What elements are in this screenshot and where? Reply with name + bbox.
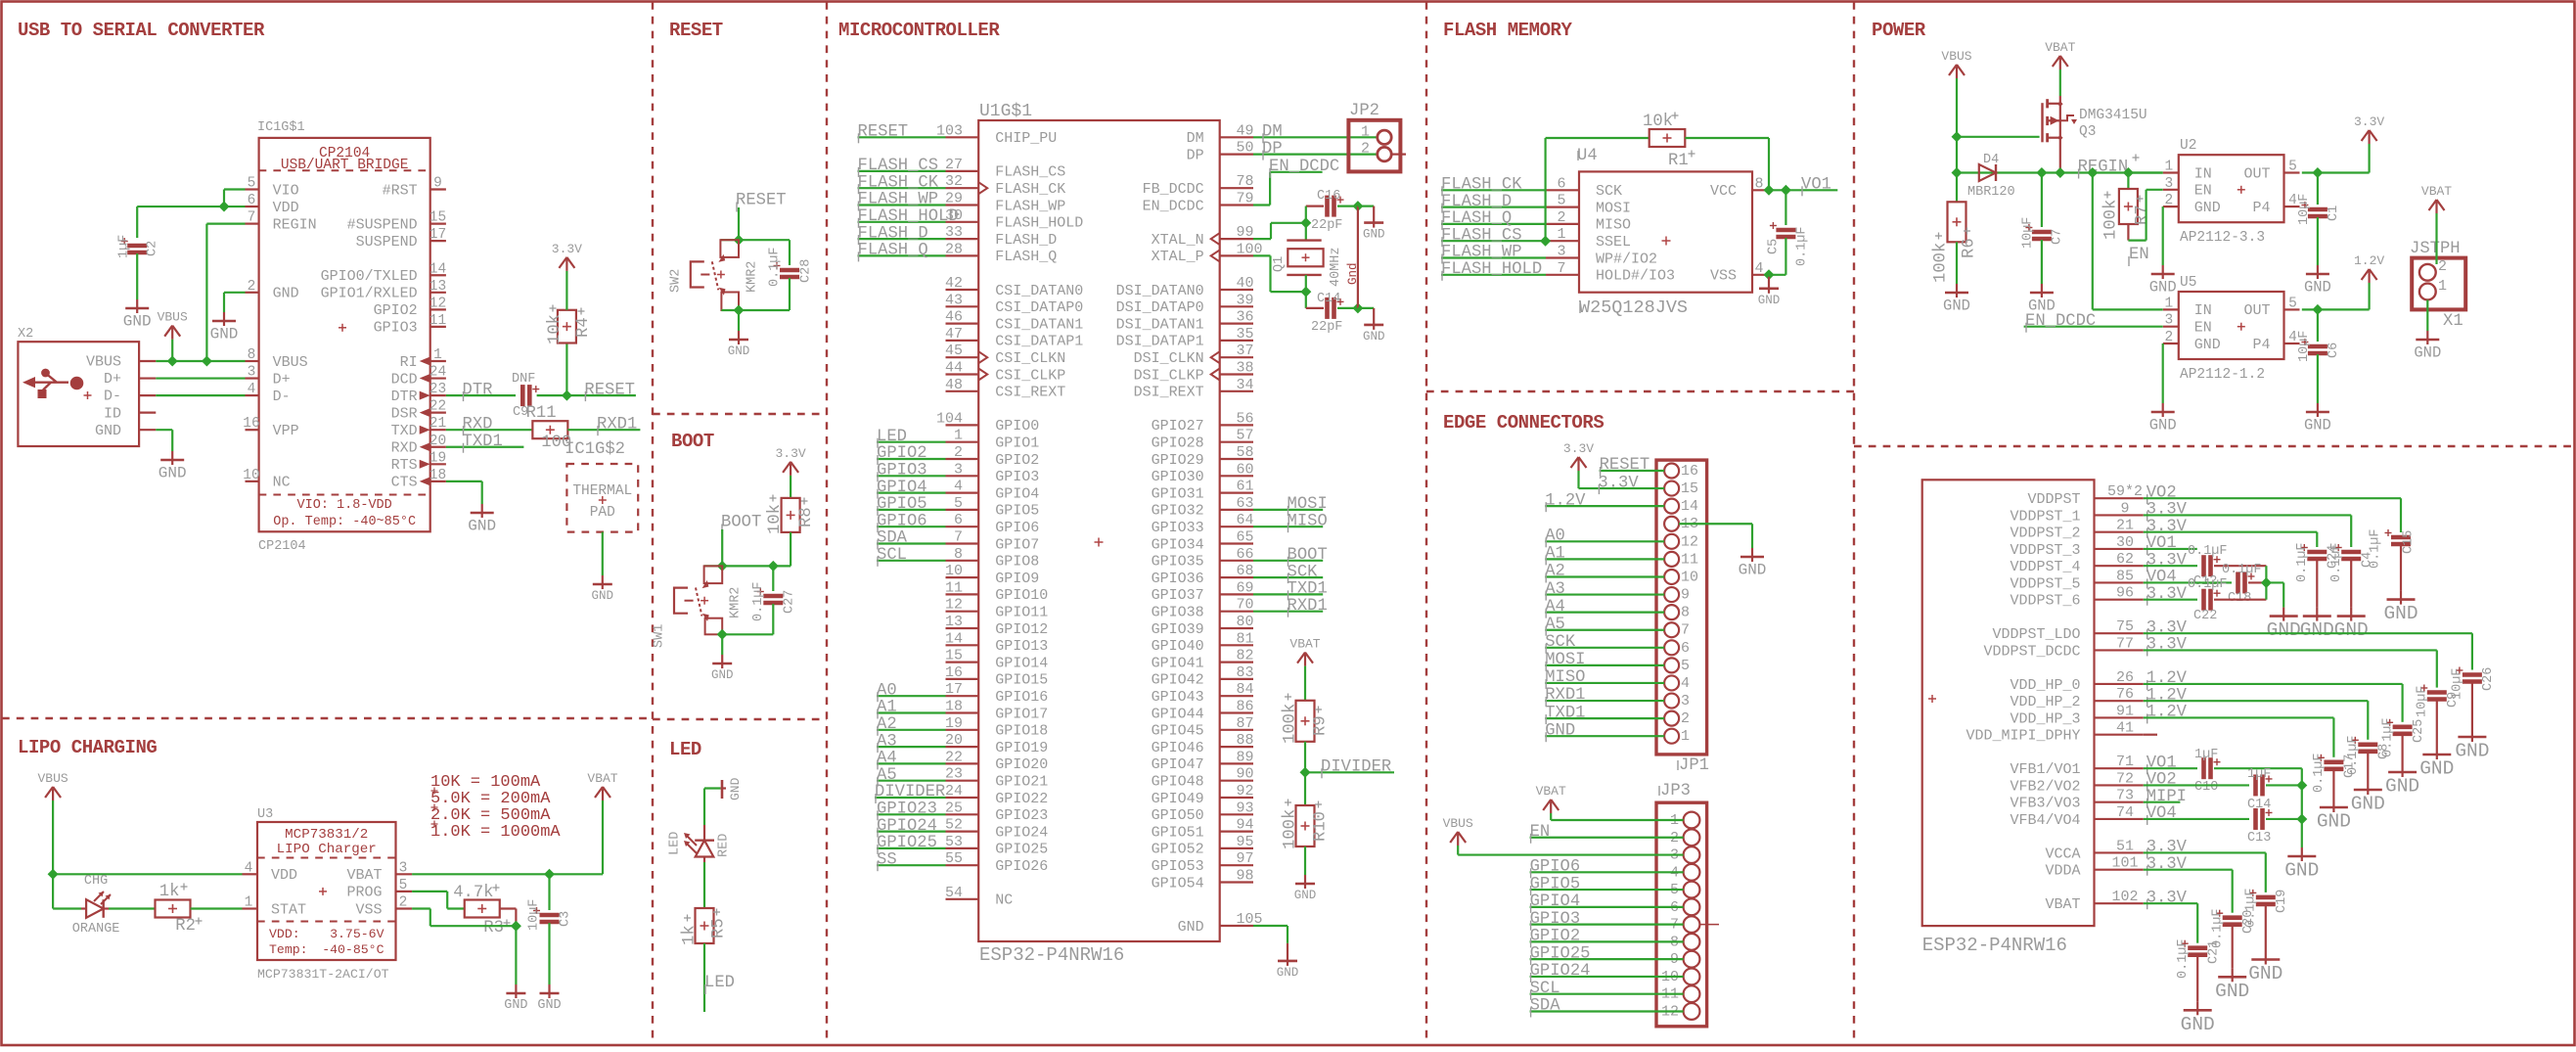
svg-text:KMR2: KMR2	[745, 261, 759, 293]
ground R6	[1956, 284, 1958, 293]
ground C1	[2317, 265, 2319, 274]
wire gate link	[1957, 136, 2040, 138]
junction rail vbus	[1952, 167, 1963, 178]
svg-text:GND: GND	[158, 465, 187, 482]
wire DIVIDER label	[1305, 771, 1394, 773]
wire VO4 vfb4	[2144, 818, 2249, 820]
svg-text:101: 101	[2111, 855, 2138, 872]
ground boot	[721, 655, 723, 663]
svg-text:69: 69	[1237, 579, 1254, 596]
svg-text:GPIO29: GPIO29	[1152, 452, 1204, 469]
svg-text:100k: 100k	[1932, 243, 1951, 283]
svg-text:GPIO32: GPIO32	[1152, 503, 1204, 520]
svg-text:GPIO2: GPIO2	[374, 302, 418, 319]
svg-text:23: 23	[429, 382, 446, 397]
svg-text:GPIO37: GPIO37	[1152, 587, 1204, 604]
svg-text:GPIO0/TXLED: GPIO0/TXLED	[321, 268, 418, 285]
svg-text:LED: LED	[704, 974, 735, 992]
wire R3 to junction	[499, 907, 516, 909]
wire net GPIO24 jp3	[1530, 976, 1684, 978]
svg-text:GND: GND	[273, 286, 299, 302]
svg-text:VDDPST_6: VDDPST_6	[2010, 593, 2080, 610]
svg-text:Q1: Q1	[1272, 256, 1287, 272]
svg-text:GND: GND	[728, 777, 743, 800]
svg-text:50: 50	[1237, 140, 1254, 157]
junction C5 top	[1781, 185, 1791, 196]
svg-text:14: 14	[1681, 498, 1698, 515]
svg-text:GPIO39: GPIO39	[1152, 621, 1204, 638]
svg-text:25: 25	[945, 800, 963, 816]
svg-text:86: 86	[1237, 699, 1254, 715]
svg-text:GPIO4: GPIO4	[1530, 892, 1581, 911]
wire net GPIO6 jp3	[1530, 871, 1684, 873]
svg-text:7: 7	[1681, 622, 1690, 639]
resistor R5 1k	[696, 908, 714, 943]
svg-text:GPIO3: GPIO3	[995, 469, 1039, 485]
svg-text:NC: NC	[273, 475, 291, 491]
svg-text:22: 22	[945, 749, 963, 765]
svg-text:96: 96	[2116, 585, 2134, 602]
wire EN to U2 pin3	[2128, 240, 2146, 242]
svg-text:C10: C10	[2194, 780, 2218, 795]
capacitor C24 0.1uF	[2307, 550, 2327, 555]
svg-text:15: 15	[945, 648, 963, 664]
svg-text:EN_DCDC: EN_DCDC	[1269, 158, 1339, 176]
svg-text:SUSPEND: SUSPEND	[356, 234, 418, 251]
ic U1 ESP32-P4 box	[978, 120, 1219, 941]
wire MIPI vfb3	[2144, 801, 2181, 803]
JP3 circles	[1684, 812, 1700, 829]
svg-text:GPIO3: GPIO3	[877, 462, 927, 480]
junction boot right	[768, 561, 779, 572]
svg-text:102: 102	[2111, 889, 2138, 905]
svg-text:REGIN: REGIN	[2078, 159, 2129, 177]
svg-text:65: 65	[1237, 529, 1254, 546]
wire net GPIO25 jp3	[1530, 958, 1684, 960]
capacitor C18 0.1uF	[2236, 572, 2240, 593]
ground jp1 pin13	[1751, 548, 1753, 557]
svg-text:59*2: 59*2	[2107, 483, 2143, 500]
svg-text:FLASH_WP: FLASH_WP	[1441, 244, 1522, 262]
svg-text:17: 17	[429, 227, 446, 243]
svg-text:CSI_REXT: CSI_REXT	[995, 385, 1065, 401]
svg-text:ESP32-P4NRW16: ESP32-P4NRW16	[979, 944, 1124, 966]
svg-text:VDD: VDD	[273, 200, 299, 216]
svg-text:1: 1	[2438, 278, 2447, 295]
junction VSS u4	[1764, 269, 1775, 280]
wire DM net	[1253, 136, 1378, 138]
wire vddpst cap bus	[2265, 566, 2267, 600]
svg-text:1: 1	[245, 895, 253, 911]
svg-text:VO1: VO1	[2147, 534, 2177, 553]
svg-text:C19: C19	[2275, 890, 2289, 913]
svg-text:AP2112-1.2: AP2112-1.2	[2180, 367, 2265, 383]
wire R6 gnd	[1956, 242, 1958, 284]
svg-text:39: 39	[1237, 292, 1254, 308]
svg-text:C2: C2	[146, 241, 160, 256]
junction VBUS at power arrow	[167, 356, 178, 367]
svg-text:Op. Temp: -40~85°C: Op. Temp: -40~85°C	[273, 515, 416, 529]
ic IC1 CP2104 box	[259, 138, 430, 531]
svg-text:11: 11	[429, 313, 446, 329]
svg-text:FLASH_WP: FLASH_WP	[858, 191, 939, 209]
wire IC1 GND pin2	[224, 292, 246, 294]
svg-text:64: 64	[1237, 512, 1254, 528]
svg-text:2: 2	[2164, 330, 2173, 345]
wire U3 VBAT net	[412, 873, 601, 875]
svg-text:GND: GND	[1294, 889, 1317, 902]
wire LED top	[704, 787, 720, 789]
svg-text:5: 5	[954, 495, 963, 512]
svg-text:55: 55	[945, 850, 963, 867]
junction XTAL_N	[1300, 217, 1311, 228]
svg-text:GPIO9: GPIO9	[995, 571, 1039, 587]
svg-text:A1: A1	[877, 699, 897, 717]
svg-text:DSI_REXT: DSI_REXT	[1134, 385, 1204, 401]
svg-text:72: 72	[2116, 770, 2134, 787]
wire U1 GND net	[1253, 925, 1288, 927]
ground C24	[2316, 608, 2318, 617]
wire net FLASH_WP flash	[1441, 256, 1546, 258]
svg-text:SDA: SDA	[1530, 997, 1561, 1016]
wire net MISO u1-right	[1253, 526, 1323, 527]
svg-text:A1: A1	[1545, 545, 1565, 564]
svg-text:1µF: 1µF	[117, 235, 132, 258]
wire net GPIO2 jp3	[1530, 940, 1684, 942]
svg-text:USB/UART BRIDGE: USB/UART BRIDGE	[281, 158, 409, 173]
resistor R2 1k	[156, 900, 191, 918]
svg-text:34: 34	[1237, 377, 1254, 393]
svg-text:60: 60	[1237, 461, 1254, 478]
svg-text:XTAL_P: XTAL_P	[1152, 249, 1204, 265]
capacitor C28 0.1uF	[789, 240, 791, 265]
svg-text:85: 85	[2116, 568, 2134, 584]
svg-text:GPIO6: GPIO6	[1530, 858, 1581, 877]
svg-text:GND: GND	[210, 326, 239, 343]
svg-text:8: 8	[1754, 175, 1763, 192]
ground C21	[2196, 1001, 2198, 1010]
wire RXD net	[446, 429, 533, 431]
svg-text:GPIO12: GPIO12	[995, 621, 1048, 638]
resistor R6 100k	[1956, 173, 1958, 203]
junction VSS R3	[511, 921, 521, 932]
svg-text:68: 68	[1237, 563, 1254, 579]
svg-text:GPIO35: GPIO35	[1152, 554, 1204, 571]
IC1 right pin stubs	[430, 188, 446, 190]
svg-text:A0: A0	[1545, 527, 1565, 546]
svg-text:FLASH_CS: FLASH_CS	[1441, 226, 1522, 245]
junction rail r7	[2123, 167, 2134, 178]
svg-text:R7: R7	[2134, 205, 2152, 225]
svg-text:21: 21	[2116, 518, 2134, 534]
svg-text:3: 3	[248, 365, 256, 381]
svg-text:VSS: VSS	[355, 901, 382, 918]
svg-text:4: 4	[2288, 193, 2297, 208]
svg-text:GND: GND	[2334, 619, 2369, 641]
svg-text:D+: D+	[104, 371, 121, 388]
diode D4 MBR120	[1979, 164, 1996, 181]
svg-text:C20: C20	[2241, 910, 2256, 934]
usb connector X2	[18, 342, 139, 446]
svg-text:VDD_HP_2: VDD_HP_2	[2010, 694, 2080, 710]
svg-text:38: 38	[1237, 360, 1254, 377]
wire 1.2V row12	[2144, 700, 2369, 702]
svg-text:MOSI: MOSI	[1596, 200, 1631, 216]
svg-text:RTS: RTS	[391, 457, 418, 474]
svg-text:GND: GND	[1943, 297, 1970, 315]
svg-text:18: 18	[429, 468, 446, 483]
ground C2	[136, 299, 138, 308]
wire net A2 u1-left	[877, 729, 946, 731]
svg-text:MISO: MISO	[1288, 512, 1328, 530]
svg-text:A3: A3	[1545, 580, 1565, 599]
svg-text:W25Q128JVS: W25Q128JVS	[1579, 297, 1688, 318]
ground divider	[1304, 875, 1306, 884]
svg-text:2: 2	[1361, 141, 1370, 158]
svg-text:CP2104: CP2104	[258, 539, 306, 554]
svg-text:RI: RI	[400, 354, 418, 371]
svg-text:FB_DCDC: FB_DCDC	[1143, 181, 1204, 198]
svg-text:SCK: SCK	[1545, 633, 1576, 652]
svg-text:RXD1: RXD1	[597, 415, 637, 434]
wire reset gnd	[738, 310, 740, 331]
svg-text:1: 1	[954, 428, 963, 444]
svg-text:23: 23	[945, 766, 963, 783]
wire 3.3V row2	[2144, 531, 2318, 533]
svg-text:LED: LED	[877, 428, 907, 446]
U3 pin stubs	[243, 873, 258, 875]
U4 left pin stubs	[1546, 189, 1579, 191]
svg-text:48: 48	[945, 377, 963, 393]
svg-text:GPIO38: GPIO38	[1152, 605, 1204, 621]
svg-text:GND: GND	[2149, 279, 2177, 297]
wire net A3 u1-left	[877, 746, 946, 748]
wire BOOT drop	[721, 529, 723, 566]
wire vfb bus	[2301, 768, 2303, 847]
ground crystal top	[1373, 206, 1375, 223]
svg-text:DSI_CLKN: DSI_CLKN	[1134, 350, 1204, 367]
resistor R11 100	[532, 421, 567, 438]
wire 3.3V row6 C22	[2144, 599, 2197, 601]
svg-text:GPIO15: GPIO15	[995, 672, 1048, 689]
svg-text:OUT: OUT	[2243, 302, 2270, 319]
svg-text:94: 94	[1237, 817, 1254, 834]
svg-text:99: 99	[1237, 224, 1254, 241]
svg-text:33: 33	[945, 224, 963, 241]
svg-text:12: 12	[945, 597, 963, 614]
svg-text:RXD: RXD	[463, 415, 493, 434]
svg-text:10µF: 10µF	[2021, 217, 2036, 249]
svg-text:1: 1	[2164, 296, 2173, 311]
capacitor C22 0.1uF	[2201, 589, 2206, 611]
svg-text:GND: GND	[2304, 279, 2331, 297]
svg-text:PROG: PROG	[346, 885, 382, 901]
svg-text:66: 66	[1237, 546, 1254, 563]
svg-text:FLASH_WP: FLASH_WP	[995, 198, 1065, 214]
wire U3 PROG to R3	[412, 891, 447, 892]
wire VIO/VDD	[224, 188, 246, 190]
ground LED section top	[720, 787, 726, 789]
svg-text:10k: 10k	[766, 504, 785, 534]
wire net TXD1 u1-right	[1253, 593, 1323, 595]
junction reset top	[734, 235, 745, 246]
svg-text:FLASH_Q: FLASH_Q	[858, 242, 928, 260]
svg-text:JP3: JP3	[1660, 782, 1691, 800]
svg-text:93: 93	[1237, 800, 1254, 816]
svg-text:EN: EN	[2194, 183, 2212, 200]
svg-text:FLASH_HOLD: FLASH_HOLD	[858, 207, 959, 226]
svg-text:49: 49	[1237, 122, 1254, 139]
svg-text:104: 104	[936, 410, 963, 427]
svg-text:GND: GND	[2194, 337, 2221, 353]
svg-text:75: 75	[2116, 618, 2134, 635]
wire 3.3V dcdc row9	[2144, 649, 2437, 651]
jp3 pin7 stub	[1699, 924, 1719, 926]
svg-text:VBAT: VBAT	[346, 867, 382, 884]
svg-text:MICROCONTROLLER: MICROCONTROLLER	[838, 20, 1000, 41]
svg-text:4: 4	[954, 479, 963, 495]
svg-text:4: 4	[245, 860, 253, 876]
svg-text:3.3V: 3.3V	[2147, 518, 2188, 536]
wire net MOSI u1-right	[1253, 509, 1323, 511]
X2 pin stubs	[139, 360, 156, 362]
svg-text:0.1µF: 0.1µF	[2176, 938, 2191, 979]
svg-text:2: 2	[399, 895, 408, 911]
svg-text:26: 26	[2116, 669, 2134, 686]
svg-text:GPIO23: GPIO23	[995, 807, 1048, 824]
svg-text:GPIO22: GPIO22	[995, 791, 1048, 807]
svg-text:IC1G$2: IC1G$2	[565, 440, 625, 459]
svg-text:DSI_DATAP0: DSI_DATAP0	[1116, 299, 1204, 316]
wire VCC to C5	[1769, 189, 1785, 191]
svg-text:2: 2	[1557, 209, 1565, 226]
wire 1.2V row13	[2144, 716, 2334, 718]
svg-text:81: 81	[1237, 630, 1254, 647]
svg-text:OUT: OUT	[2243, 165, 2270, 182]
svg-text:VDD_MIPI_DPHY: VDD_MIPI_DPHY	[1966, 728, 2080, 745]
svg-text:GPIO10: GPIO10	[995, 587, 1048, 604]
svg-text:GPIO17: GPIO17	[995, 706, 1048, 722]
svg-text:0.1µF: 0.1µF	[2222, 563, 2262, 577]
svg-text:1: 1	[1361, 123, 1370, 140]
wire C14 to gnd sym	[1358, 307, 1374, 309]
svg-text:GPIO25: GPIO25	[1530, 944, 1591, 963]
svg-text:GPIO14: GPIO14	[995, 655, 1048, 671]
svg-text:1.2V: 1.2V	[2147, 669, 2188, 688]
svg-text:HOLD#/IO3: HOLD#/IO3	[1596, 268, 1675, 285]
junction C16 gnd	[1352, 201, 1363, 211]
section frame divider USB column right	[652, 2, 654, 1045]
svg-text:79: 79	[1237, 191, 1254, 207]
svg-text:Gnd: Gnd	[1346, 262, 1360, 285]
wire X1 pin1 gnd	[2426, 299, 2428, 331]
svg-text:36: 36	[1237, 309, 1254, 326]
svg-text:VO1: VO1	[2147, 754, 2177, 772]
svg-text:GPIO24: GPIO24	[995, 824, 1048, 841]
svg-text:RESET: RESET	[669, 20, 723, 41]
wire net DIVIDER u1-left	[875, 797, 946, 799]
svg-text:A2: A2	[1545, 563, 1565, 581]
svg-text:A4: A4	[877, 750, 897, 768]
svg-text:VIO: 1.8-VDD: VIO: 1.8-VDD	[297, 498, 392, 513]
wire C16-crystal link	[1305, 206, 1307, 241]
wire net FLASH_Q u1-left	[858, 254, 946, 256]
svg-text:LIPO CHARGING: LIPO CHARGING	[18, 737, 157, 758]
svg-text:8: 8	[954, 546, 963, 563]
svg-text:D+: D+	[273, 371, 291, 388]
svg-text:10: 10	[1681, 569, 1698, 585]
wire net FLASH_CS flash	[1441, 240, 1546, 242]
svg-text:C9: C9	[2446, 692, 2461, 708]
junction VBUS at REGIN drop	[202, 356, 212, 367]
wire net SCK jp1	[1545, 647, 1664, 649]
svg-text:C24: C24	[2327, 545, 2341, 569]
svg-text:GPIO53: GPIO53	[1152, 858, 1204, 875]
svg-text:SCL: SCL	[877, 546, 907, 565]
svg-text:CHIP_PU: CHIP_PU	[995, 130, 1057, 147]
junction reset bottom	[734, 305, 745, 316]
svg-text:GND: GND	[2414, 344, 2441, 362]
svg-text:4.7k: 4.7k	[453, 884, 493, 902]
wire R9 to divider	[1304, 742, 1306, 773]
svg-text:C5: C5	[1767, 239, 1782, 254]
svg-text:1.2V: 1.2V	[2354, 253, 2384, 268]
wire net FLASH_D u1-left	[858, 238, 946, 240]
svg-text:15: 15	[1681, 480, 1698, 497]
svg-text:VBUS: VBUS	[1443, 816, 1473, 831]
junction XTAL_P	[1300, 287, 1311, 297]
svg-text:GPIO16: GPIO16	[995, 689, 1048, 706]
svg-text:GPIO45: GPIO45	[1152, 723, 1204, 740]
svg-text:GPIO3: GPIO3	[374, 320, 418, 337]
svg-text:C28: C28	[799, 259, 814, 283]
svg-text:22pF: 22pF	[1311, 320, 1342, 335]
wire U5 OUT	[2302, 308, 2370, 310]
svg-text:DTR: DTR	[463, 381, 493, 399]
wire DTR net	[446, 394, 516, 396]
svg-text:9: 9	[433, 176, 442, 192]
wire VSS to C5	[1769, 274, 1785, 276]
ic U4 W25Q128JVS box	[1579, 171, 1752, 292]
capacitor C14 1uF power-block	[2253, 774, 2258, 796]
IC1 pin direction arrows	[420, 357, 430, 366]
wire D+ net	[156, 377, 245, 379]
svg-text:MBR120: MBR120	[1967, 185, 2015, 200]
svg-text:19: 19	[429, 450, 446, 466]
svg-text:0.1µF: 0.1µF	[1795, 226, 1810, 266]
ground IC1 pin2	[223, 312, 225, 321]
svg-text:VO4: VO4	[2147, 804, 2177, 823]
wire net A5 u1-left	[877, 780, 946, 782]
ground C4	[2350, 608, 2352, 617]
svg-text:BOOT: BOOT	[1288, 546, 1328, 565]
resistor R8 10k	[782, 498, 800, 532]
svg-text:70: 70	[1237, 597, 1254, 614]
junction vbus gate	[1952, 131, 1963, 142]
wire VCC rail	[1768, 138, 1770, 190]
svg-text:PAD: PAD	[590, 505, 615, 521]
svg-text:RXD1: RXD1	[1545, 686, 1585, 705]
wire RESET net right	[566, 394, 636, 396]
svg-text:C17: C17	[2343, 755, 2358, 778]
svg-text:16: 16	[243, 416, 259, 432]
U4 right pin stubs	[1752, 189, 1769, 191]
svg-text:3.3V: 3.3V	[2354, 114, 2384, 129]
svg-text:DTR: DTR	[391, 389, 418, 405]
svg-text:77: 77	[2116, 635, 2134, 652]
svg-text:43: 43	[945, 292, 963, 308]
svg-text:14: 14	[945, 630, 963, 647]
